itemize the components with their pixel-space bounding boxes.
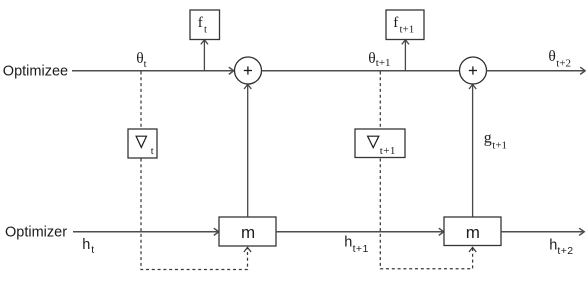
svg-text:t+1: t+1 bbox=[492, 140, 507, 152]
wire tap to f_t bbox=[201, 40, 208, 71]
box nabla_t bbox=[128, 129, 157, 158]
adder U1 (plus circle) bbox=[235, 57, 262, 84]
svg-text:t: t bbox=[204, 25, 207, 36]
wire optimizee segment adder1 to adder2 bbox=[262, 70, 460, 72]
svg-text:t+1: t+1 bbox=[353, 243, 369, 255]
node h_t+1 bbox=[344, 234, 368, 255]
adder U2 (plus circle) bbox=[460, 57, 487, 84]
wire optimizee output theta_t+2 bbox=[487, 67, 586, 74]
wire optimizer h_t segment into m1 bbox=[73, 228, 219, 235]
svg-text:m: m bbox=[466, 223, 480, 242]
box f_t bbox=[190, 10, 220, 40]
box m1 (optimizer cell) bbox=[219, 217, 276, 246]
wire optimizee theta_t segment into adder1 bbox=[72, 67, 234, 74]
node theta_t+1 bbox=[368, 50, 390, 69]
box f_t+1 bbox=[386, 10, 424, 40]
node theta_t bbox=[136, 50, 146, 70]
wire optimizer h_t+1 segment into m2 bbox=[276, 228, 444, 235]
svg-text:f: f bbox=[393, 15, 398, 31]
node theta_t+2 bbox=[548, 48, 571, 70]
wire dashed gradient feed t+1 (to m2) bbox=[380, 72, 476, 269]
node h_t+2 bbox=[549, 238, 573, 257]
wire m1 output up to adder1 bbox=[244, 84, 251, 217]
box nabla_t+1 bbox=[355, 129, 405, 158]
svg-text:t: t bbox=[151, 146, 154, 157]
wire m2 output up to adder2 bbox=[469, 84, 476, 217]
svg-text:t+2: t+2 bbox=[557, 245, 573, 257]
svg-text:g: g bbox=[484, 130, 492, 147]
svg-text:h: h bbox=[344, 234, 352, 250]
node g_t+1 bbox=[484, 130, 507, 152]
svg-text:θ: θ bbox=[548, 48, 555, 65]
svg-text:t+1: t+1 bbox=[380, 145, 396, 157]
svg-text:h: h bbox=[549, 238, 557, 254]
box m2 (optimizer cell) bbox=[444, 217, 501, 246]
svg-text:f: f bbox=[198, 15, 203, 31]
svg-text:Optimizee: Optimizee bbox=[3, 64, 68, 80]
svg-text:Optimizer: Optimizer bbox=[5, 225, 67, 241]
svg-text:t: t bbox=[144, 59, 147, 70]
wire tap to f_t+1 bbox=[402, 40, 409, 71]
svg-text:θ: θ bbox=[368, 50, 375, 67]
svg-text:m: m bbox=[241, 223, 255, 242]
svg-text:t+2: t+2 bbox=[556, 58, 571, 70]
svg-text:t+1: t+1 bbox=[400, 24, 415, 36]
node h_t bbox=[82, 237, 94, 256]
svg-text:h: h bbox=[82, 237, 90, 253]
svg-text:t+1: t+1 bbox=[376, 57, 391, 69]
wire dashed gradient feed t (to m1) bbox=[141, 72, 251, 270]
wire optimizer output h_t+2 bbox=[501, 228, 584, 235]
svg-text:t: t bbox=[91, 244, 94, 256]
